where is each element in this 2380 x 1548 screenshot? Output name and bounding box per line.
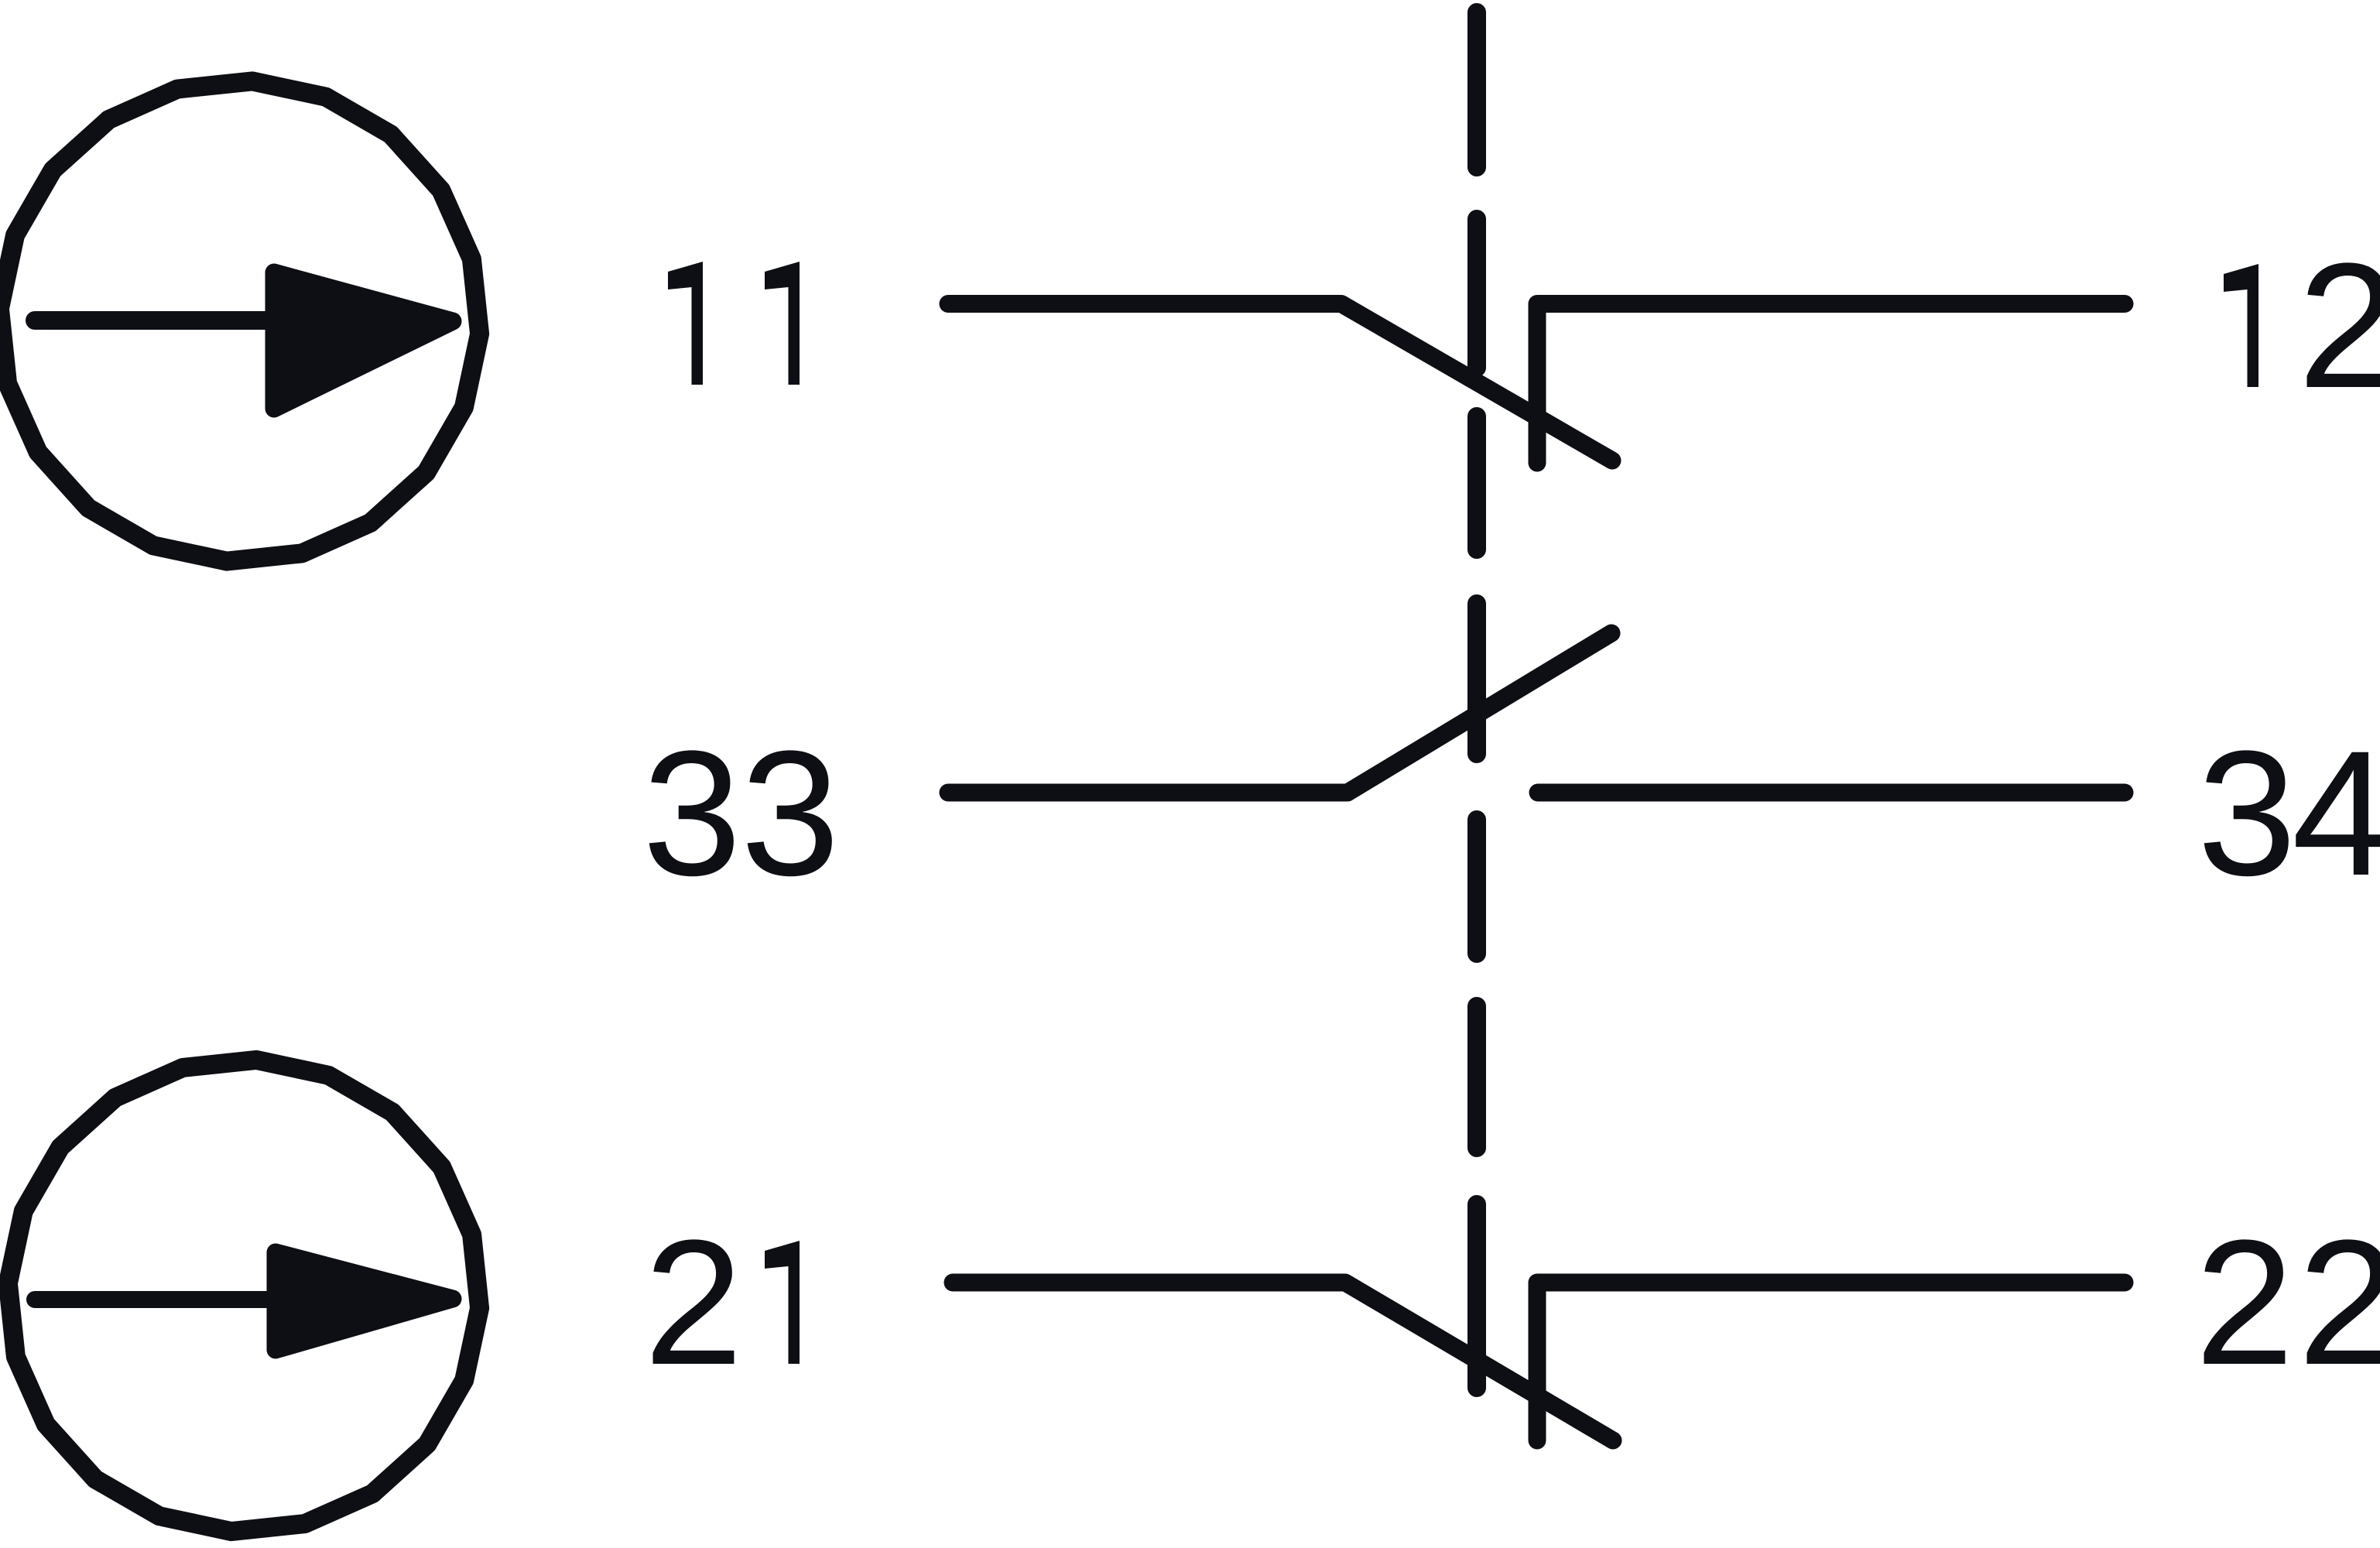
mechanical link (vertical dashed line) (1467, 12, 1486, 1388)
actuator circle (top push-button head) (0, 81, 480, 561)
actuator arrow head (top) (274, 272, 453, 409)
NO contact 33-34: left lead from terminal 33 and movable blade (948, 633, 1611, 793)
actuator arrow head (bottom) (276, 1252, 453, 1350)
svg-text:2: 2 (644, 1203, 743, 1402)
svg-text:22: 22 (2195, 1203, 2380, 1402)
actuator arrow shaft (bottom) (35, 1291, 325, 1308)
NC contact 21-22: right lead to terminal 22 with fixed-contact stub (1537, 1283, 2125, 1440)
NC contact 11-12: left lead from terminal 11 and movable blade (948, 304, 1612, 461)
svg-text:33: 33 (642, 714, 840, 913)
terminal label 11 (668, 262, 703, 385)
NO contact 33-34: right lead to terminal 34 (1538, 784, 2125, 802)
terminal label 12 (2224, 264, 2258, 387)
NC contact 11-12: right lead to terminal 12 with fixed-contact stub (1537, 304, 2125, 464)
svg-text:2: 2 (2298, 226, 2380, 425)
svg-text:34: 34 (2197, 714, 2380, 913)
NC contact 21-22: left lead from terminal 21 and movable blade (953, 1283, 1613, 1440)
actuator circle (bottom push-button head) (8, 1060, 479, 1531)
actuator arrow shaft (top) (35, 311, 325, 330)
